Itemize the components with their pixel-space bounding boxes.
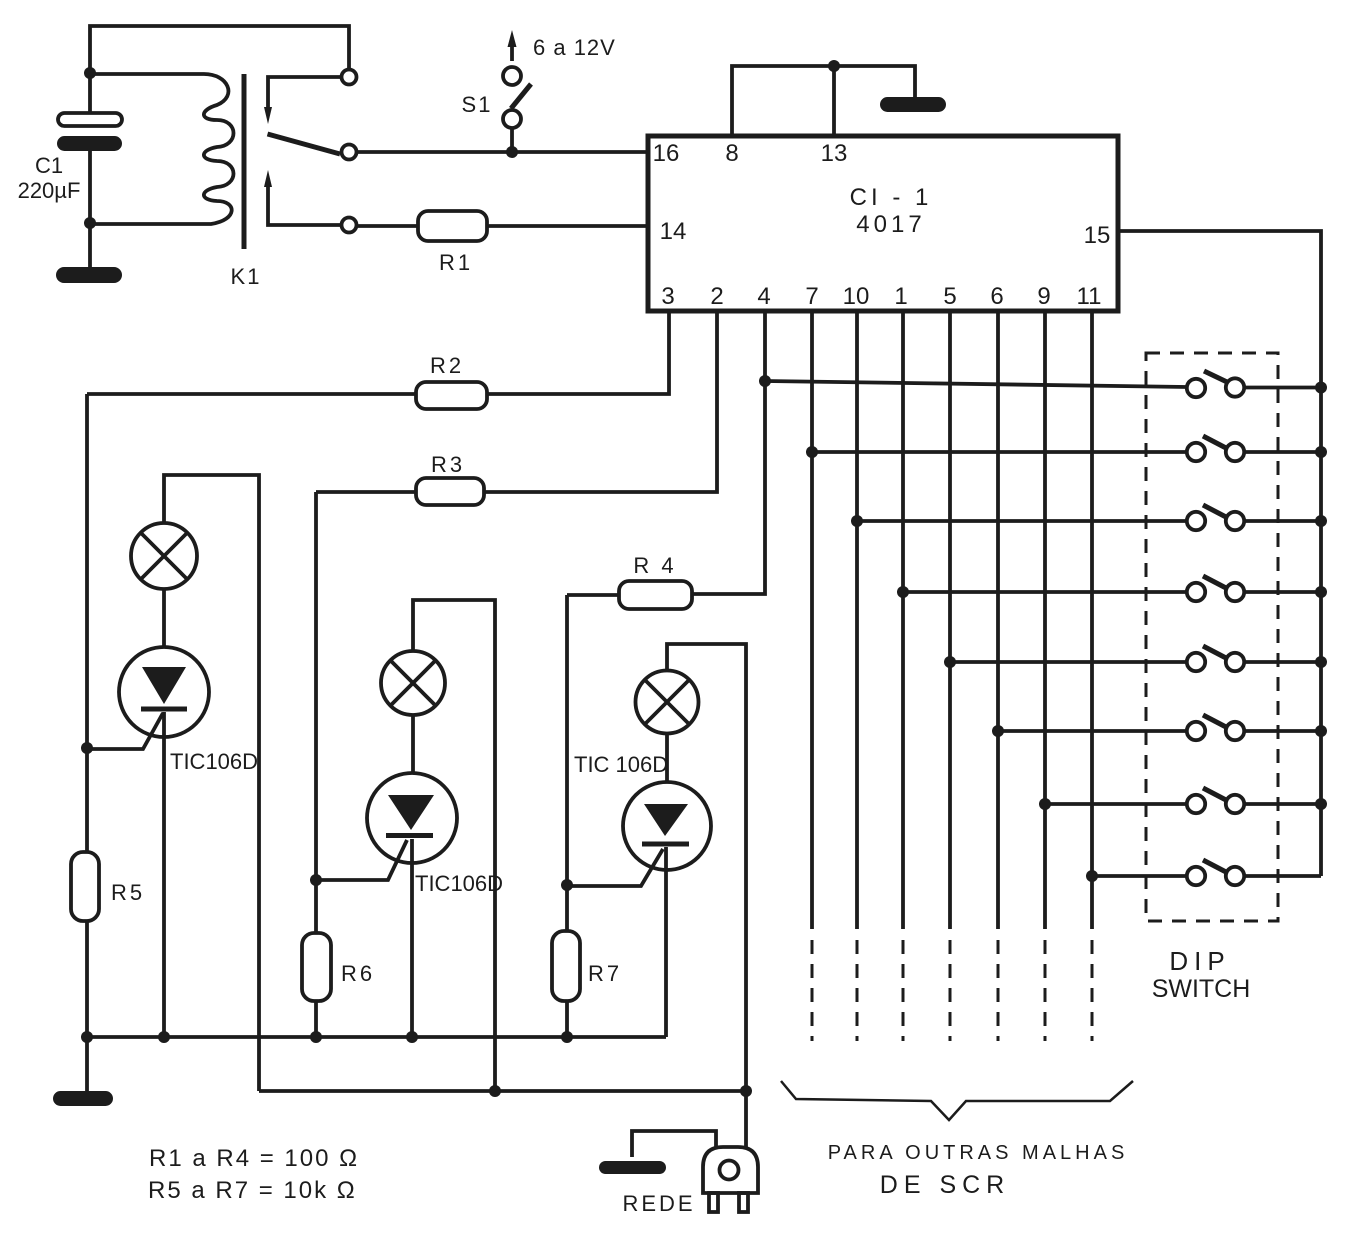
svg-text:R3: R3 — [431, 452, 465, 477]
svg-text:6: 6 — [990, 283, 1003, 310]
svg-text:R5: R5 — [111, 880, 145, 905]
svg-text:16: 16 — [653, 140, 680, 167]
svg-text:11: 11 — [1077, 283, 1102, 310]
svg-text:10: 10 — [843, 283, 870, 310]
svg-text:7: 7 — [805, 283, 818, 310]
svg-text:4017: 4017 — [856, 211, 925, 238]
svg-text:DIP: DIP — [1169, 946, 1230, 976]
svg-text:R6: R6 — [341, 961, 375, 986]
svg-text:2: 2 — [710, 283, 723, 310]
svg-text:R2: R2 — [430, 353, 464, 378]
svg-text:K1: K1 — [231, 264, 262, 289]
svg-text:TIC 106D: TIC 106D — [574, 752, 668, 777]
svg-text:DE SCR: DE SCR — [880, 1171, 1010, 1199]
svg-text:1: 1 — [894, 283, 907, 310]
svg-text:TIC106D: TIC106D — [170, 749, 258, 774]
svg-text:TIC106D: TIC106D — [415, 871, 503, 896]
svg-text:4: 4 — [757, 283, 770, 310]
svg-text:C1: C1 — [35, 153, 63, 178]
svg-text:13: 13 — [821, 140, 848, 167]
svg-text:8: 8 — [725, 140, 738, 167]
svg-text:R5 a R7 = 10k Ω: R5 a R7 = 10k Ω — [148, 1177, 357, 1204]
svg-text:15: 15 — [1084, 222, 1111, 249]
svg-text:R1: R1 — [439, 250, 473, 275]
svg-text:6 a 12V: 6 a 12V — [533, 35, 616, 60]
svg-text:CI - 1: CI - 1 — [850, 184, 933, 211]
svg-text:R1 a R4 = 100 Ω: R1 a R4 = 100 Ω — [149, 1145, 359, 1172]
svg-text:3: 3 — [661, 283, 674, 310]
svg-text:SWITCH: SWITCH — [1152, 975, 1251, 1003]
svg-text:S1: S1 — [462, 92, 493, 117]
svg-text:14: 14 — [660, 218, 687, 245]
svg-text:220µF: 220µF — [18, 178, 81, 203]
svg-text:R 4: R 4 — [633, 553, 676, 578]
svg-text:9: 9 — [1037, 283, 1050, 310]
svg-text:5: 5 — [943, 283, 956, 310]
svg-text:R7: R7 — [588, 961, 622, 986]
svg-text:REDE: REDE — [622, 1191, 695, 1216]
svg-text:PARA OUTRAS MALHAS: PARA OUTRAS MALHAS — [828, 1142, 1129, 1164]
